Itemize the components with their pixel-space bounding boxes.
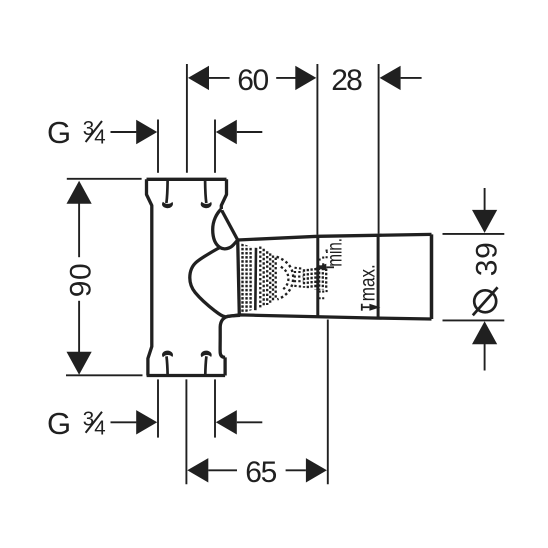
dimension G3/4 bottom arrow right [136, 410, 157, 434]
wire diameter dim tail top [484, 188, 486, 212]
wire extension line D (G3/4 left, top) [157, 120, 159, 173]
max arrow [369, 304, 380, 311]
svg-text:60: 60 [237, 64, 269, 97]
wire min arrow tail [326, 266, 334, 268]
spout loop [213, 209, 238, 249]
wire extension line B (min plane, top) [316, 64, 318, 235]
clip hook bottom left [167, 356, 168, 375]
svg-text:G: G [47, 115, 71, 150]
stipple solid edge [254, 248, 257, 310]
svg-text:G: G [47, 406, 71, 441]
dimension G3/4 top arrow right [136, 120, 157, 144]
stipple neck rows [294, 268, 304, 287]
cone top edge [238, 234, 432, 240]
min plane line [316, 236, 319, 317]
wire diameter bottom extension [443, 319, 505, 321]
sleeve right cap [430, 234, 434, 319]
svg-text:3: 3 [83, 117, 94, 140]
wire 90 dim line lower [78, 301, 80, 353]
wire dimension 60 tail right [276, 77, 295, 79]
max tail tick [361, 304, 363, 311]
dimension diameter arrow up [472, 321, 497, 344]
cone left edge [238, 240, 240, 315]
dimension 60 arrow left [188, 66, 209, 90]
wire 90 extension bottom [66, 374, 143, 376]
label diameter symbol (rotated) [473, 287, 498, 315]
wire dimension 28 tail [401, 77, 422, 79]
clip hook top right [205, 181, 206, 203]
spout diagonal [222, 211, 238, 241]
wire 90 extension top [67, 178, 142, 180]
stipple bell columns [267, 251, 276, 305]
wire G3/4 top leader [111, 131, 137, 133]
wire max arrow tail [362, 306, 370, 308]
dimension 65 arrow left [187, 458, 208, 482]
dimension 28 arrow (outside right) [380, 66, 401, 90]
svg-text:min.: min. [323, 238, 347, 267]
wire extension line D bottom [157, 379, 159, 437]
wire fraction slash bottom [86, 412, 102, 433]
dimension 65 arrow right [306, 458, 327, 482]
seat curve [190, 247, 227, 316]
wire 90 dim line upper [78, 203, 80, 258]
stipple columns [260, 247, 263, 309]
wire G3/4 bottom leader [111, 421, 137, 423]
svg-text:3: 3 [83, 408, 94, 431]
clip hook bottom right [205, 356, 206, 375]
dimension diameter arrow down [472, 210, 497, 233]
wire extension line E (G3/4 right, top) [214, 120, 216, 173]
wire extension line A (centre axis, top) [186, 64, 188, 173]
cone bottom edge [226, 315, 431, 319]
svg-text:65: 65 [245, 456, 277, 489]
stipple right blob columns [304, 268, 326, 290]
dimension G3/4 top arrow left [216, 120, 237, 144]
svg-text:28: 28 [331, 64, 363, 97]
wire extension line E bottom [214, 379, 216, 437]
min arrow [315, 264, 326, 271]
wire G3/4 bottom tail right [237, 421, 262, 423]
clip hook top left [166, 181, 167, 203]
wire extension 65 right [327, 320, 329, 485]
stipple dense band [241, 243, 253, 314]
wire diameter dim tail bottom [484, 344, 486, 371]
svg-text:90: 90 [64, 263, 97, 297]
dimension G3/4 bottom arrow left [216, 410, 237, 434]
svg-text:39: 39 [470, 242, 503, 276]
stipple inner ring [281, 267, 289, 291]
wire 65 tail left [208, 469, 237, 471]
stipple outer ring [277, 257, 294, 300]
svg-text:max.: max. [355, 264, 379, 301]
dimension 90 arrow up [67, 181, 92, 204]
wire dimension 60 tail left [209, 77, 230, 79]
max plane line [377, 235, 380, 318]
wire diameter top extension [443, 233, 505, 235]
funnel bottom corner and neck [220, 315, 240, 357]
wire 65 tail right [286, 469, 306, 471]
dimension 60 arrow right [295, 66, 316, 90]
body outline [147, 179, 227, 375]
wire extension line C (max plane, top) [378, 64, 380, 234]
wire G3/4 top tail right [237, 131, 262, 133]
wire extension 65 left [185, 379, 187, 484]
wire fraction slash top [86, 121, 102, 142]
stipple fringe [320, 250, 327, 304]
dimension 90 arrow down [67, 352, 92, 375]
